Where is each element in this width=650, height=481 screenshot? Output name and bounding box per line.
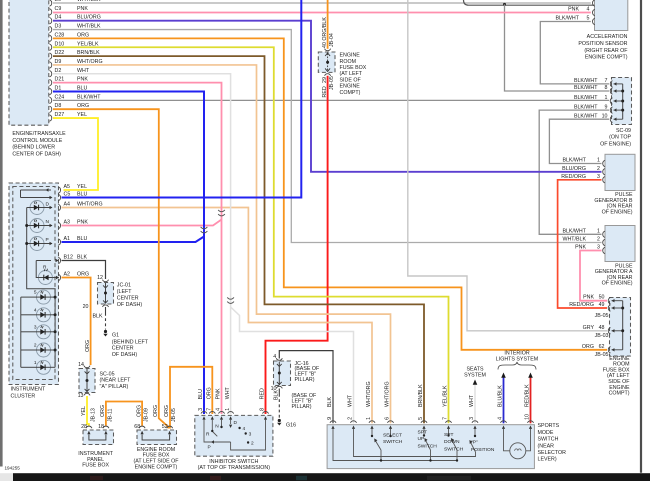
svg-text:PILLAR): PILLAR)	[295, 377, 315, 383]
svg-text:RED/ORG: RED/ORG	[561, 174, 586, 180]
inhibitor internal D contact	[229, 420, 238, 428]
svg-text:LIGHTS SYSTEM: LIGHTS SYSTEM	[496, 356, 538, 362]
svg-text:YEL: YEL	[77, 184, 87, 190]
pulse generator B caption	[594, 192, 633, 215]
pulse generator A caption	[595, 263, 633, 286]
sports switch spt-up contact	[423, 429, 432, 462]
ETCM pin D9 (WHT/ORG)	[50, 59, 103, 68]
svg-text:WHT: WHT	[77, 68, 90, 74]
svg-text:YEL/BLK: YEL/BLK	[443, 385, 449, 407]
svg-text:ORG: ORG	[77, 103, 89, 109]
wire C24 BLK/WHT: ETCM to SC-09 pin 1	[53, 99, 609, 101]
svg-text:WHT/BLK: WHT/BLK	[562, 237, 586, 243]
svg-text:4: 4	[216, 408, 222, 411]
ERFB-right pin 48 (GRY)	[583, 325, 623, 334]
svg-text:D3: D3	[55, 24, 62, 30]
JC-16 caption	[295, 361, 320, 383]
sports mode switch box	[327, 425, 534, 469]
svg-text:(NEAR LEFT: (NEAR LEFT	[100, 378, 132, 384]
inhibitor switch caption	[198, 459, 271, 471]
inhibitor internal P contact path	[204, 420, 266, 451]
svg-text:SYSTEM: SYSTEM	[464, 372, 486, 378]
engine room fuse box (bottom-left) box	[137, 430, 177, 445]
svg-text:ORG: ORG	[77, 32, 89, 38]
svg-text:29: 29	[322, 77, 328, 83]
ETCM pin D3 (WHT/BLK)	[50, 24, 102, 33]
svg-text:BLU/ORG: BLU/ORG	[562, 166, 586, 172]
svg-text:C9: C9	[55, 6, 62, 12]
ERFB-top pin 29 labels	[322, 76, 335, 97]
wire PNK: pulse generator A pin 3 to ERFB-right pin 50	[580, 251, 607, 301]
svg-text:WHT/BLK: WHT/BLK	[77, 24, 101, 30]
sports switch select switch label	[383, 432, 403, 445]
svg-text:A4: A4	[64, 202, 71, 208]
svg-text:BLU: BLU	[77, 236, 87, 242]
svg-text:SWITCH: SWITCH	[383, 439, 403, 445]
svg-text:WHT/ORG: WHT/ORG	[77, 202, 103, 208]
ground G16	[277, 419, 296, 429]
SC-05 internal	[86, 369, 89, 392]
svg-text:8: 8	[605, 85, 608, 91]
cluster LED 1	[21, 360, 55, 375]
svg-text:GRY: GRY	[583, 325, 595, 331]
svg-text:LEVER): LEVER)	[538, 457, 557, 463]
inhibitor switch pin 8 (RED)	[260, 388, 269, 420]
sports mode switch pin 6 (WHT/ORG)	[385, 381, 394, 429]
svg-text:CENTER OF DASH): CENTER OF DASH)	[12, 151, 61, 157]
svg-text:D22: D22	[55, 50, 65, 56]
svg-text:1: 1	[597, 158, 600, 164]
svg-text:D1: D1	[55, 86, 62, 92]
svg-text:CONTROL MODULE: CONTROL MODULE	[12, 138, 62, 144]
cluster LED R	[36, 259, 59, 285]
wire D22 BRN/BLK: ETCM to sports mode switch pin 5	[53, 56, 424, 423]
ERFB-right JB-05 label (lower)	[595, 352, 609, 358]
svg-text:PNK: PNK	[583, 295, 594, 301]
pulse generator A box	[605, 226, 635, 262]
pulse generator B box	[605, 154, 635, 190]
svg-text:COMPT): COMPT)	[340, 90, 361, 96]
JC-16 pin 10	[271, 382, 283, 392]
svg-text:D2: D2	[55, 68, 62, 74]
svg-text:WHT/BLK: WHT/BLK	[77, 0, 101, 3]
svg-text:SPT: SPT	[444, 432, 454, 438]
wire D2 WHT: ETCM to inhibitor switch pin 1	[53, 74, 231, 414]
svg-text:1: 1	[597, 228, 600, 234]
ERFB-right JB-03 label	[595, 333, 609, 339]
SC-09 internal bus	[621, 84, 624, 119]
svg-text:N: N	[215, 424, 219, 430]
svg-text:9: 9	[327, 417, 333, 420]
svg-text:N: N	[46, 219, 50, 225]
sports mode switch pin 9 (BLK)	[327, 397, 336, 429]
interior lights system feed	[496, 351, 538, 378]
svg-text:BLK/WHT: BLK/WHT	[555, 16, 579, 22]
instrument cluster pin A3 (PNK)	[58, 220, 88, 229]
svg-text:(AT TOP OF TRANSMISSION): (AT TOP OF TRANSMISSION)	[198, 465, 271, 471]
wire JC-16 pin 10 to G16 (BLK)	[274, 389, 280, 419]
svg-text:C24: C24	[55, 94, 65, 100]
cluster numbered-LED left bus	[20, 297, 22, 367]
sports switch spt-down contact	[447, 429, 458, 462]
sports switch select contact	[371, 429, 392, 462]
in-line connector on WHT wire	[227, 297, 234, 303]
wire A4 WHT/ORG: instrument cluster to sports mode switch pin 1	[62, 208, 373, 424]
ETCM pin C9 (PNK)	[50, 6, 89, 15]
svg-text:7: 7	[207, 408, 213, 411]
svg-text:5: 5	[418, 417, 424, 420]
sports switch spt-up label	[418, 429, 438, 449]
svg-text:JC-01: JC-01	[117, 283, 131, 289]
ERFB-left internal link	[142, 435, 170, 441]
cluster LED 3	[21, 324, 55, 339]
svg-text:JB-11: JB-11	[107, 409, 113, 422]
wire C9 PNK: ETCM to APS pin 4	[53, 12, 591, 14]
cluster LED D	[30, 201, 53, 215]
svg-text:JB-05: JB-05	[595, 352, 609, 358]
wire D27 YEL: ETCM to instrument cluster pin A5	[53, 118, 98, 190]
svg-text:68: 68	[134, 424, 140, 430]
cluster D/N/P left bus	[25, 208, 55, 298]
PGB pin 1 (BLK/WHT)	[562, 158, 605, 167]
wire BLU/BLK: interior lights to sports mode switch pin 4	[503, 378, 505, 424]
svg-text:5: 5	[34, 290, 37, 296]
svg-text:7: 7	[605, 78, 608, 84]
svg-text:A2: A2	[64, 272, 71, 278]
svg-text:1: 1	[366, 417, 372, 420]
IPFB pin 28	[81, 424, 92, 434]
wire RED/BLK: interior lights to sports mode switch pin 10	[530, 378, 532, 424]
svg-text:A5: A5	[64, 184, 71, 190]
svg-text:WHT/ORG: WHT/ORG	[366, 381, 372, 407]
svg-text:INHIBITOR SWITCH: INHIBITOR SWITCH	[209, 459, 258, 465]
sports switch illumination lamp	[504, 429, 531, 459]
svg-text:POSITION: POSITION	[471, 447, 495, 453]
svg-text:CENTER: CENTER	[117, 295, 139, 301]
svg-text:CLUSTER: CLUSTER	[11, 394, 36, 400]
svg-text:SWITCH: SWITCH	[418, 444, 438, 450]
ERFB-right pin 50 (PNK)	[583, 295, 623, 304]
instrument cluster pin A2 (ORG)	[58, 272, 89, 281]
wire D4 BLU/ORG: ETCM to pulse generator B pin 2	[53, 21, 602, 172]
inhibitor switch pin 4 (PNK)	[216, 388, 225, 420]
ETCM pin D1 (BLU)	[50, 86, 88, 95]
ETCM pin C28 (ORG)	[50, 32, 90, 41]
splice connector SC-09 box	[612, 78, 632, 125]
svg-text:13: 13	[78, 393, 84, 399]
svg-text:DOWN: DOWN	[444, 439, 460, 445]
svg-text:BLK/WHT: BLK/WHT	[562, 228, 586, 234]
svg-text:UP: UP	[418, 436, 425, 442]
instrument cluster caption	[11, 386, 46, 399]
engine room fuse box (top) box	[318, 52, 335, 72]
svg-text:B6: B6	[55, 0, 62, 3]
svg-text:D4: D4	[55, 15, 62, 21]
svg-text:D: D	[46, 202, 50, 208]
svg-text:ACCELERATION: ACCELERATION	[587, 34, 628, 40]
svg-text:SELECTOR: SELECTOR	[538, 450, 567, 456]
IPFB pin 18	[98, 424, 109, 434]
svg-text:48: 48	[599, 325, 605, 331]
svg-text:12: 12	[97, 275, 103, 281]
svg-text:PNK: PNK	[568, 7, 579, 13]
svg-text:BLK: BLK	[274, 390, 280, 400]
engine room fuse box (bottom-left) caption	[133, 447, 179, 470]
svg-text:BLK/WHT: BLK/WHT	[562, 158, 586, 164]
JC-16 pin 4	[273, 354, 282, 367]
svg-text:2: 2	[597, 166, 600, 172]
svg-text:ORG: ORG	[85, 340, 91, 352]
ERFB-left pin labels	[144, 408, 178, 422]
svg-text:A1: A1	[64, 236, 71, 242]
JC-01 caption	[117, 283, 143, 308]
svg-text:YEL: YEL	[77, 112, 87, 118]
svg-text:4: 4	[34, 307, 37, 313]
svg-text:WHT: WHT	[225, 386, 231, 399]
svg-text:6: 6	[385, 417, 391, 420]
svg-text:JB-05: JB-05	[595, 313, 609, 319]
engine/transaxle control module (ETCM) box	[9, 0, 49, 125]
svg-text:(ON TOP: (ON TOP	[609, 135, 631, 141]
svg-text:2: 2	[597, 237, 600, 243]
svg-text:9: 9	[605, 104, 608, 110]
svg-text:D21: D21	[55, 77, 65, 83]
svg-text:28: 28	[81, 424, 87, 430]
wire ORG/BLK: off-page top to ERFB-top pin 40	[327, 0, 329, 49]
wire WHT branch to sports mode switch pin 2	[231, 307, 354, 423]
G1 caption	[112, 339, 149, 358]
ERFB-top pin 40 bracket	[325, 49, 331, 51]
ETCM pin D27 (YEL)	[50, 112, 88, 121]
PGA pin 2 (WHT/BLK)	[562, 237, 605, 246]
instrument cluster pin C5 (BLU)	[58, 192, 87, 201]
ETCM pin D21 (PNK)	[50, 77, 89, 86]
SC-05 pin 14	[78, 362, 90, 374]
svg-text:PNK: PNK	[77, 220, 88, 226]
sports mode switch pin 10 (RED/BLK)	[525, 384, 534, 429]
ETCM pin D10 (YEL/BLK)	[50, 41, 99, 50]
cluster LED 2	[21, 343, 55, 358]
drawing number 194255	[5, 466, 21, 471]
seats system feed	[464, 367, 486, 385]
svg-text:BLK/WHT: BLK/WHT	[574, 85, 598, 91]
svg-text:FUSE BOX: FUSE BOX	[340, 65, 367, 71]
svg-text:40 ORG/BLK: 40 ORG/BLK	[322, 17, 328, 48]
wire APS pin 5 BLK/WHT to SC-09 pin 7	[540, 22, 609, 84]
svg-text:BLK/WHT: BLK/WHT	[574, 113, 598, 119]
wire A1 BLU: instrument cluster join	[62, 237, 205, 243]
svg-text:62: 62	[599, 344, 605, 350]
svg-text:SPT: SPT	[418, 429, 428, 435]
svg-text:ENGINE/TRANSAXLE: ENGINE/TRANSAXLE	[12, 131, 66, 137]
svg-text:P: P	[208, 445, 211, 451]
sports mode switch caption	[538, 423, 567, 463]
sports switch spt-down label	[444, 432, 464, 452]
svg-text:BRN/BLK: BRN/BLK	[77, 50, 100, 56]
svg-text:SC-05: SC-05	[100, 371, 115, 377]
inhibitor switch box	[195, 415, 273, 456]
SC-09 caption	[600, 128, 631, 148]
svg-text:20: 20	[83, 304, 89, 310]
svg-text:OF ENGINE): OF ENGINE)	[602, 209, 633, 215]
junction dot splice at x504.5	[503, 3, 506, 6]
ERFB-right pin 62 (ORG)	[582, 344, 623, 353]
APS pin 5 (BLK/WHT)	[555, 16, 594, 25]
svg-text:PILLAR): PILLAR)	[292, 404, 312, 410]
svg-text:YEL/BLK: YEL/BLK	[77, 41, 99, 47]
SC-05 caption	[100, 371, 132, 389]
svg-text:ORG: ORG	[582, 344, 594, 350]
svg-text:ORG: ORG	[136, 405, 142, 417]
ERFB-top pin 29 bracket	[325, 74, 331, 76]
svg-text:OF DASH): OF DASH)	[112, 352, 138, 358]
ERFB-right pin 49 (RED/ORG)	[569, 302, 622, 311]
junction connector JC-01 box	[98, 283, 114, 305]
inhibitor internal R contact	[206, 420, 217, 438]
svg-text:POSITION SENSOR: POSITION SENSOR	[578, 41, 627, 47]
sports mode switch pin 2 (WHT)	[348, 394, 357, 429]
svg-text:B12: B12	[64, 255, 73, 261]
svg-text:RED: RED	[322, 86, 328, 97]
svg-text:PNK: PNK	[77, 6, 88, 12]
ETCM pin D22 (BRN/BLK)	[50, 50, 101, 59]
cluster LED N	[30, 219, 53, 233]
svg-text:JB-04: JB-04	[329, 33, 335, 47]
svg-text:49: 49	[599, 302, 605, 308]
wire C5 BLU: instrument cluster to off-page top	[62, 0, 302, 198]
svg-text:C5: C5	[64, 192, 71, 198]
svg-text:SPORTS: SPORTS	[538, 423, 560, 429]
wire B12 BLK: instrument cluster to JC-01 pin 12	[62, 261, 106, 280]
svg-text:ORG: ORG	[100, 405, 106, 417]
ERFB-right JB-05 label (upper)	[595, 313, 609, 319]
svg-text:JB-03: JB-03	[595, 333, 609, 339]
ERFB-right internal bus	[621, 301, 624, 350]
wire SC-09 pin 10 to pulse generator B pin 1 (BLK/WHT)	[549, 119, 609, 163]
instrument panel fuse box caption	[78, 451, 113, 469]
svg-text:RED/ORG: RED/ORG	[569, 302, 594, 308]
svg-text:ORG: ORG	[153, 405, 159, 417]
wire YEL: SC-05 pin 13 to IPFB pin 28	[81, 396, 89, 426]
left gray margin strip	[0, 0, 3, 467]
instrument cluster pin B12 (BLK)	[58, 255, 87, 264]
svg-text:BLU: BLU	[77, 86, 87, 92]
svg-text:14: 14	[78, 362, 84, 368]
bottom-left corner light area	[0, 473, 13, 481]
svg-text:"P": "P"	[471, 440, 478, 446]
ground G1	[103, 330, 119, 339]
svg-text:G1: G1	[112, 333, 119, 339]
svg-text:18: 18	[98, 424, 104, 430]
svg-text:WHT: WHT	[348, 394, 354, 407]
svg-text:SIDE OF: SIDE OF	[340, 77, 362, 83]
SC-09 pin 9 (BLK/WHT)	[574, 104, 623, 113]
inhibitor switch pin 1 (WHT)	[225, 386, 234, 419]
svg-text:50: 50	[599, 295, 605, 301]
wire D3 WHT/BLK: ETCM to pulse generator A pin 2	[53, 30, 602, 243]
ETCM pin D4 (BLU/ORG)	[50, 15, 101, 24]
wire GRY: off-page to ERFB-right pin 48	[408, 0, 607, 331]
sports switch P-position contact	[469, 429, 476, 452]
svg-text:ENGINE: ENGINE	[340, 53, 361, 59]
svg-text:4: 4	[273, 354, 276, 360]
ETCM pin D2 (WHT)	[50, 68, 90, 77]
JC-01 pin 20	[83, 300, 109, 309]
svg-text:G16: G16	[286, 423, 296, 429]
svg-text:3: 3	[469, 417, 475, 420]
svg-text:(BEHIND LEFT: (BEHIND LEFT	[112, 339, 149, 345]
SC-09 pin 8 (BLK/WHT)	[574, 85, 623, 94]
wire SC-09 pin 9 to pulse generator A pin 1 (BLK/WHT)	[539, 110, 609, 234]
svg-text:SWITCH: SWITCH	[538, 437, 559, 443]
wire D21 PNK: ETCM to inhibitor switch pin 4	[53, 83, 222, 414]
svg-text:10: 10	[525, 414, 531, 420]
svg-text:BRN/BLK: BRN/BLK	[418, 384, 424, 407]
svg-text:8: 8	[260, 408, 266, 411]
bottom taskbar black strip	[13, 473, 650, 481]
wire JC-01 pin 20 to G1 (BLK)	[92, 307, 105, 330]
svg-text:SELECT: SELECT	[383, 432, 402, 438]
svg-text:4: 4	[243, 426, 246, 432]
svg-text:OF ENGINE): OF ENGINE)	[600, 142, 631, 148]
ETCM pin D8 (ORG)	[50, 103, 90, 112]
svg-text:7: 7	[443, 417, 449, 420]
inhibitor position dots 4/3/2	[238, 426, 254, 447]
JC-16 internal	[278, 362, 281, 386]
svg-text:BLK: BLK	[92, 314, 102, 320]
svg-text:FUSE BOX: FUSE BOX	[82, 463, 109, 469]
svg-text:OF ENGINE): OF ENGINE)	[602, 281, 633, 287]
svg-text:OF DASH): OF DASH)	[117, 302, 143, 308]
svg-text:BLU/BLK: BLU/BLK	[498, 385, 504, 407]
PGB pin 2 (BLU/ORG)	[562, 166, 605, 175]
cluster A5/C5 internal link	[21, 188, 53, 199]
IPFB internal link	[89, 435, 106, 441]
wire BLK: G16/JC-16 to sports mode switch pin 9	[279, 351, 333, 424]
sports switch P-position label	[471, 440, 495, 454]
svg-text:BLK/WHT: BLK/WHT	[574, 104, 598, 110]
svg-text:RED/BLK: RED/BLK	[525, 384, 531, 407]
IPFB pin labels	[90, 408, 113, 422]
junction connector JC-16 box	[274, 361, 291, 386]
instrument cluster inner box	[13, 187, 55, 380]
svg-text:R: R	[206, 432, 210, 438]
svg-text:3: 3	[597, 174, 600, 180]
svg-text:2: 2	[251, 441, 254, 447]
sports switch bottom bus	[333, 429, 476, 461]
svg-text:SWITCH: SWITCH	[444, 446, 464, 452]
svg-text:2: 2	[34, 343, 37, 349]
wire D8 ORG: ETCM to ERFB-left pin 52	[53, 109, 169, 428]
wire D10 YEL/BLK: ETCM to sports mode switch pin 7	[53, 47, 449, 423]
svg-text:ORG: ORG	[77, 272, 89, 278]
in-line connector on BLU wire	[201, 227, 208, 233]
svg-text:WHT/ORG: WHT/ORG	[385, 381, 391, 407]
svg-text:INSTRUMENT: INSTRUMENT	[11, 386, 46, 392]
ETCM pin B6 (WHT/BLK)	[50, 0, 102, 6]
svg-text:ENGINE COMPT): ENGINE COMPT)	[135, 464, 178, 470]
engine room fuse box (right) box	[610, 298, 631, 357]
instrument panel fuse box box	[83, 430, 114, 445]
wire BLK/WHT: splice down to SC-09 pin 8	[505, 4, 610, 91]
svg-text:R: R	[43, 265, 47, 271]
svg-text:(NEAR: (NEAR	[538, 443, 555, 449]
svg-text:D9: D9	[55, 59, 62, 65]
wire WHT: seats system to sports mode switch pin 3	[474, 385, 476, 424]
inhibitor switch pin 3 (BLU)	[198, 389, 207, 420]
svg-text:WHT: WHT	[469, 394, 475, 407]
svg-text:D27: D27	[55, 112, 65, 118]
